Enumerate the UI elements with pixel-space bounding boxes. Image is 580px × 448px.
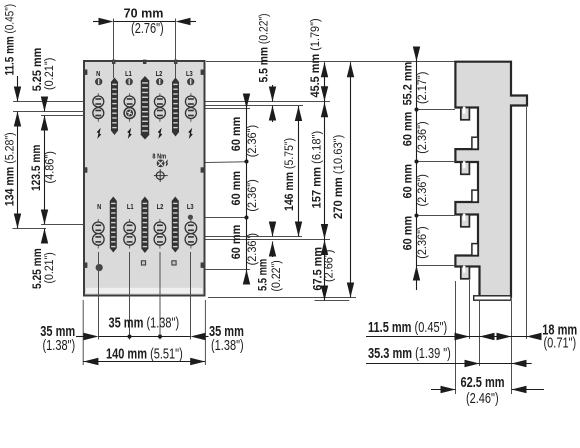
svg-text:5.5 mm (0.22"): 5.5 mm (0.22") xyxy=(258,13,271,82)
svg-text:35.3 mm (1.39 "): 35.3 mm (1.39 ") xyxy=(368,344,451,361)
svg-text:60 mm: 60 mm xyxy=(231,171,244,206)
svg-text:L3: L3 xyxy=(187,203,194,211)
svg-text:11.5 mm (0.45"): 11.5 mm (0.45") xyxy=(368,319,447,336)
svg-text:55.2 mm: 55.2 mm xyxy=(402,62,415,106)
svg-text:(0.22"): (0.22") xyxy=(270,260,283,292)
svg-text:123.5 mm: 123.5 mm xyxy=(31,144,44,191)
svg-text:(2.36"): (2.36") xyxy=(417,174,430,207)
svg-text:(0.21"): (0.21") xyxy=(44,57,57,90)
svg-text:60 mm: 60 mm xyxy=(402,112,415,147)
svg-text:N: N xyxy=(97,203,101,211)
svg-text:60 mm: 60 mm xyxy=(402,164,415,199)
svg-text:(2.36"): (2.36") xyxy=(417,121,430,154)
svg-text:5.25 mm: 5.25 mm xyxy=(32,48,45,92)
svg-text:(2.36"): (2.36") xyxy=(247,125,260,158)
svg-text:11.5 mm (0.45"): 11.5 mm (0.45") xyxy=(4,4,17,76)
svg-text:(1.38"): (1.38") xyxy=(211,337,244,354)
svg-text:(2.76"): (2.76") xyxy=(131,20,164,37)
svg-text:270 mm (10.63"): 270 mm (10.63") xyxy=(331,134,344,219)
svg-text:(2.17"): (2.17") xyxy=(417,71,430,104)
svg-text:(2.66"): (2.66") xyxy=(323,249,336,282)
svg-text:L1: L1 xyxy=(125,71,132,79)
svg-text:60 mm: 60 mm xyxy=(402,216,415,251)
svg-text:62.5 mm: 62.5 mm xyxy=(460,373,504,390)
svg-text:134 mm (5.28"): 134 mm (5.28") xyxy=(4,132,17,206)
svg-text:8 Nm: 8 Nm xyxy=(152,153,166,161)
svg-text:146 mm (5.75"): 146 mm (5.75") xyxy=(283,138,296,211)
svg-text:L1: L1 xyxy=(127,203,134,211)
svg-text:157 mm (6.18"): 157 mm (6.18") xyxy=(311,131,323,209)
svg-text:60 mm: 60 mm xyxy=(231,225,244,260)
svg-text:5.5 mm: 5.5 mm xyxy=(256,259,269,291)
svg-text:(2.36"): (2.36") xyxy=(417,226,430,259)
svg-text:L2: L2 xyxy=(157,203,164,211)
svg-text:(1.38"): (1.38") xyxy=(43,337,76,354)
svg-text:(2.46"): (2.46") xyxy=(466,390,499,407)
svg-text:L2: L2 xyxy=(156,71,163,79)
svg-text:(4.86"): (4.86") xyxy=(44,151,57,184)
svg-text:70 mm: 70 mm xyxy=(124,5,164,20)
svg-text:35 mm (1.38"): 35 mm (1.38") xyxy=(109,314,180,331)
svg-text:140 mm (5.51"): 140 mm (5.51") xyxy=(106,345,183,362)
svg-text:60 mm: 60 mm xyxy=(231,117,244,152)
svg-text:N: N xyxy=(96,71,100,79)
svg-text:5.25 mm: 5.25 mm xyxy=(32,248,45,289)
svg-text:45.5 mm (1.79"): 45.5 mm (1.79") xyxy=(310,18,323,97)
svg-text:(0.71"): (0.71") xyxy=(544,334,577,351)
svg-text:(2.36"): (2.36") xyxy=(247,179,260,212)
svg-text:L3: L3 xyxy=(186,71,193,79)
svg-text:(0.21"): (0.21") xyxy=(44,252,57,284)
